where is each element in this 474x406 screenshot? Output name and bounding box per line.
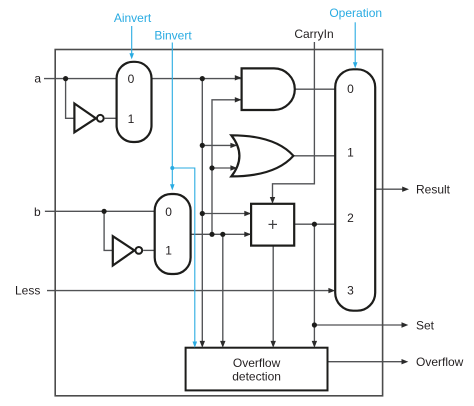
svg-text:Binvert: Binvert	[154, 29, 192, 43]
svg-text:detection: detection	[232, 369, 281, 383]
svg-text:3: 3	[347, 283, 354, 297]
svg-text:a: a	[34, 71, 41, 85]
svg-text:Operation: Operation	[329, 6, 382, 20]
svg-text:1: 1	[128, 112, 135, 126]
svg-text:CarryIn: CarryIn	[294, 27, 333, 41]
svg-text:2: 2	[347, 211, 354, 225]
svg-text:0: 0	[165, 205, 172, 219]
svg-text:1: 1	[165, 243, 172, 257]
svg-text:Ainvert: Ainvert	[114, 11, 152, 25]
svg-text:Less: Less	[15, 284, 40, 298]
svg-text:0: 0	[128, 72, 135, 86]
svg-text:0: 0	[347, 82, 354, 96]
svg-text:b: b	[34, 205, 41, 219]
svg-text:Set: Set	[416, 318, 435, 332]
svg-text:Result: Result	[416, 182, 451, 196]
svg-text:Overflow: Overflow	[416, 355, 464, 369]
svg-text:Overflow: Overflow	[233, 356, 281, 370]
svg-text:1: 1	[347, 145, 354, 159]
